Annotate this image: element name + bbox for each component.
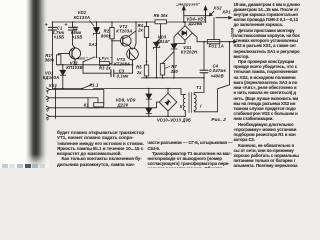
svg-text:КТ203А: КТ203А — [116, 28, 132, 33]
transformer T1 — [183, 95, 185, 111]
svg-text:К1: К1 — [84, 103, 90, 108]
relay K1 — [88, 98, 98, 108]
resistor R1 — [59, 53, 70, 54]
capacitor C1 — [49, 27, 57, 30]
zener diode VD3 — [157, 24, 161, 78]
svg-text:К1.1: К1.1 — [90, 83, 100, 88]
circuit schematic Рис. 2 — [0, 0, 300, 168]
wire C2 branch — [73, 22, 76, 48]
wire pin4 — [56, 115, 186, 117]
svg-text:800к: 800к — [101, 34, 111, 39]
bridge rectifier VD4-VD7 — [178, 26, 193, 41]
wire pin2 — [56, 97, 89, 99]
transistor VT1 — [69, 48, 80, 59]
svg-text:КУ202Н: КУ202Н — [181, 50, 198, 55]
svg-text:КС133А: КС133А — [74, 15, 90, 20]
svg-text:1: 1 — [47, 91, 49, 95]
wire load terminals — [184, 16, 210, 22]
right text column — [234, 2, 300, 169]
connector XS1 — [55, 88, 57, 119]
svg-text:Рис. 2: Рис. 2 — [211, 117, 226, 122]
wire left rail — [52, 22, 54, 89]
svg-text:„Авт.“: „Авт.“ — [74, 57, 89, 61]
wire VS1 gate — [163, 52, 175, 64]
wire pin1 to relay — [56, 90, 104, 105]
svg-text:XS2: XS2 — [212, 6, 222, 11]
wire mid rail — [57, 64, 133, 66]
resistor R2 — [111, 22, 113, 41]
junction dots — [52, 21, 231, 117]
bridge rectifier VD10-VD13 — [159, 93, 177, 111]
diode VD8 — [148, 89, 150, 95]
svg-text:3: 3 — [47, 109, 49, 113]
svg-text:КД103А: КД103А — [43, 75, 60, 80]
resistor R3 — [100, 62, 110, 66]
resistor R7 — [160, 64, 164, 76]
svg-text:430: 430 — [170, 69, 179, 74]
svg-text:Д814Г: Д814Г — [156, 39, 171, 44]
diode VD1 — [62, 65, 64, 89]
diode VD9 — [146, 108, 152, 113]
zener diode VD2 — [96, 22, 98, 58]
plus signs — [45, 23, 67, 25]
svg-text:FU1 1А: FU1 1А — [209, 44, 224, 49]
wire VT3 emitter — [132, 60, 134, 73]
svg-text:„Руч.“: „Руч.“ — [99, 57, 112, 61]
transistor VT2 — [121, 36, 132, 47]
svg-text:R6 30к: R6 30к — [154, 13, 169, 18]
svg-text:2: 2 — [46, 99, 49, 103]
capacitor C2 — [69, 27, 77, 30]
svg-text:„Нагрузка“: „Нагрузка“ — [175, 3, 200, 7]
svg-text:ХР1: ХР1 — [221, 10, 231, 15]
svg-text:×400В: ×400В — [211, 73, 224, 78]
wire K1.1 line — [53, 84, 186, 94]
svg-text:Д226Б: Д226Б — [188, 21, 203, 26]
bottom-left colour tiles — [25, 154, 49, 168]
left text column — [57, 130, 144, 167]
svg-text:360к: 360к — [45, 58, 55, 63]
svg-text:×15Б: ×15Б — [72, 34, 83, 39]
svg-text:VD10–VD13 Д9Б: VD10–VD13 Д9Б — [157, 117, 191, 122]
wire VT2 base — [112, 40, 121, 42]
wire top rail — [53, 21, 206, 23]
thyristor VS1 — [174, 40, 185, 78]
svg-text:КТ208А: КТ208А — [114, 61, 130, 66]
svg-text:Д220: Д220 — [117, 103, 129, 108]
svg-text:R5: R5 — [136, 64, 142, 69]
capacitor C3 — [83, 72, 133, 74]
wire VT collector rail — [134, 22, 136, 49]
svg-text:2к: 2к — [137, 27, 143, 32]
relay contact label K1.1 junction — [82, 88, 84, 90]
svg-text:КП103Б: КП103Б — [66, 65, 82, 70]
svg-text:II: II — [180, 104, 183, 109]
resistor R5 — [144, 65, 148, 76]
svg-text:0,1мк: 0,1мк — [117, 73, 130, 78]
wire pin3 — [56, 102, 160, 108]
resistor R4 — [146, 22, 148, 65]
svg-text:×15Б: ×15Б — [54, 34, 65, 39]
transistor VT3 — [127, 48, 139, 60]
switch SA2 — [83, 57, 95, 73]
svg-text:Т1: Т1 — [196, 85, 202, 90]
wire mains return — [194, 42, 229, 112]
svg-text:SA2: SA2 — [89, 42, 98, 47]
svg-text:R3 2к: R3 2к — [99, 66, 111, 71]
svg-text:2к: 2к — [136, 70, 142, 75]
svg-text:XS1: XS1 — [48, 83, 58, 88]
fuse FU1 — [197, 18, 234, 42]
middle text column — [148, 140, 233, 171]
svg-text:I: I — [200, 104, 202, 109]
resistor R6 — [155, 20, 167, 24]
capacitor C4 — [194, 42, 204, 95]
wire bottom rail — [142, 77, 205, 79]
connector XS2/XP1 arrows — [211, 11, 215, 15]
svg-text:4: 4 — [46, 117, 49, 121]
